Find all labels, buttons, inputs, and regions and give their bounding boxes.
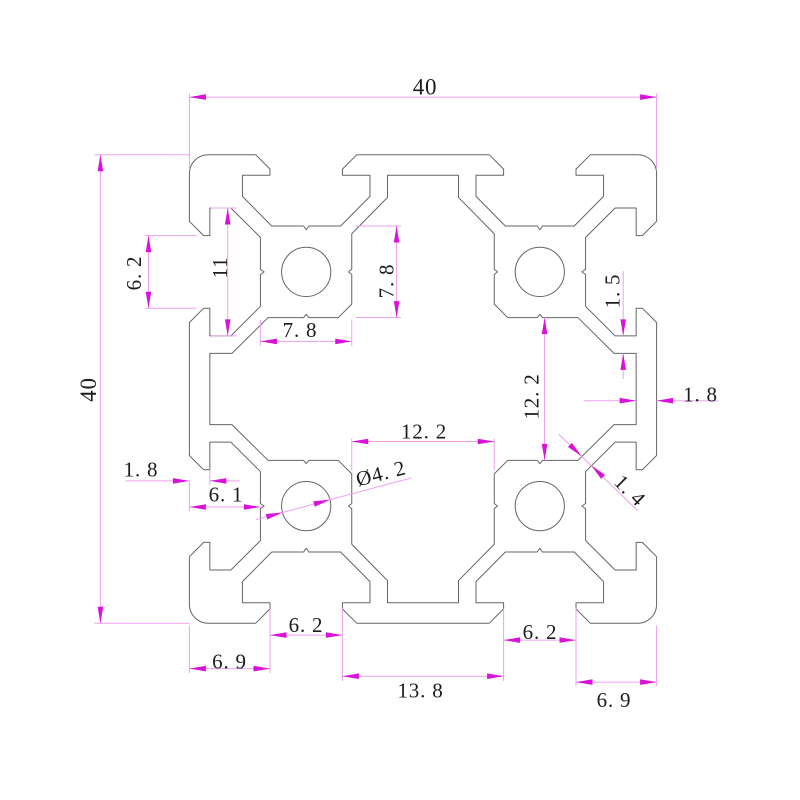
- dimension 6.9 bottom-left corner tab: [189, 626, 270, 674]
- dimension 11 T-slot cavity width: [208, 208, 237, 336]
- core hole top-left quadrant: [282, 247, 331, 296]
- svg-text:40: 40: [76, 377, 101, 402]
- svg-text:1. 8: 1. 8: [124, 457, 159, 481]
- dimension diameter 4.2 core hole leader: [256, 455, 412, 519]
- svg-text:7. 8: 7. 8: [283, 318, 318, 342]
- svg-text:6. 2: 6. 2: [122, 256, 146, 291]
- svg-text:12. 2: 12. 2: [519, 374, 543, 420]
- svg-text:6. 9: 6. 9: [597, 688, 632, 712]
- svg-text:6. 9: 6. 9: [212, 649, 247, 673]
- svg-text:6. 2: 6. 2: [523, 620, 558, 644]
- core hole top-right quadrant: [515, 247, 564, 296]
- svg-text:12. 2: 12. 2: [401, 419, 447, 443]
- svg-text:1. 5: 1. 5: [600, 274, 624, 309]
- svg-text:6. 2: 6. 2: [289, 613, 324, 637]
- dimension 40 overall width (top): [189, 75, 656, 168]
- svg-text:1. 8: 1. 8: [683, 382, 718, 406]
- dimension 12.2 central cavity width: [352, 419, 495, 470]
- core hole bottom-left quadrant: [282, 482, 331, 531]
- svg-text:40: 40: [413, 75, 438, 100]
- dimension 1.5 rib thickness: [600, 271, 626, 379]
- svg-text:11: 11: [208, 257, 232, 279]
- svg-text:6. 1: 6. 1: [209, 482, 244, 506]
- dimension 40 overall height (left): [76, 155, 190, 623]
- dimension 12.2 central cavity height: [519, 318, 547, 461]
- dimension 1.8 wall thickness (right): [584, 382, 718, 406]
- core hole bottom-right quadrant: [515, 482, 564, 531]
- svg-text:13. 8: 13. 8: [398, 679, 444, 703]
- dimension 6.1 face to block: [189, 481, 260, 511]
- dimension 13.8 bottom centre tab: [342, 644, 503, 703]
- dimension 6.2 side slot opening (left): [122, 236, 196, 309]
- dimension 6.9 bottom-right corner tab: [576, 626, 657, 713]
- svg-text:1. 4: 1. 4: [609, 470, 651, 512]
- central plus-shaped cavity with corner chamfers and ribs: [210, 175, 636, 602]
- dimension 6.2 bottom-left slot opening: [270, 609, 342, 645]
- svg-text:7. 8: 7. 8: [374, 264, 398, 299]
- dimension 1.4 web thickness: [559, 434, 651, 511]
- dimension 6.2 bottom-right slot opening: [504, 609, 576, 650]
- dimension 7.8 block width: [260, 318, 351, 346]
- aluminium profile outer contour with 8 T-slot openings: [189, 155, 656, 623]
- dimension 7.8 block height: [356, 226, 401, 318]
- dimension 1.8 hook wall thickness (left): [124, 457, 240, 485]
